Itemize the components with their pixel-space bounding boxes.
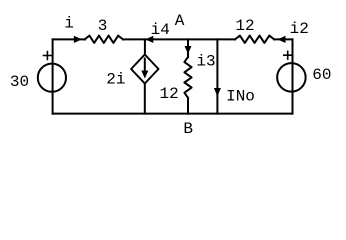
voltage source V1 30V circle (38, 64, 66, 92)
current arrow i (right-pointing on top wire) (74, 36, 82, 43)
current arrow i3 (down-pointing on middle branch) (185, 46, 192, 54)
dependent source arrowhead (141, 71, 148, 79)
dependent current source 2i diamond (131, 55, 158, 84)
voltage source V2 60V circle (277, 63, 306, 92)
svg-text:i2: i2 (290, 20, 309, 38)
wire bottom (53, 113, 293, 115)
wire dependent-source branch upper (144, 39, 146, 54)
current arrow i4 (left-pointing on top wire) (145, 36, 153, 43)
svg-text:i: i (64, 15, 74, 33)
wire left branch vertical (52, 39, 54, 113)
current arrow INo (down-pointing on INo branch) (214, 88, 221, 97)
svg-text:B: B (183, 120, 193, 138)
svg-text:A: A (175, 12, 185, 30)
svg-text:i4: i4 (151, 21, 170, 39)
svg-text:30: 30 (10, 73, 29, 91)
plus sign of V2 (284, 51, 292, 59)
dependent source internal arrow shaft (144, 59, 146, 72)
svg-text:2i: 2i (106, 71, 125, 89)
resistor R3 value 12 (middle vertical) (184, 57, 191, 98)
wire right branch vertical (292, 39, 294, 113)
wire top-left segment (53, 38, 85, 40)
svg-text:60: 60 (312, 66, 331, 84)
plus sign of V1 (44, 52, 52, 60)
svg-text:3: 3 (98, 17, 108, 35)
svg-text:12: 12 (160, 85, 179, 103)
wire top-right segment (274, 38, 292, 40)
svg-text:i3: i3 (196, 53, 215, 71)
current arrow i2 (left-pointing on top wire) (278, 36, 286, 43)
wire INo branch vertical (216, 39, 218, 113)
svg-text:INo: INo (226, 87, 255, 105)
svg-text:12: 12 (235, 17, 254, 35)
wire dependent-source branch lower (144, 84, 146, 114)
resistor R1 value 3 (top left) (85, 36, 123, 43)
wire middle resistor branch lower (187, 98, 189, 114)
resistor R2 value 12 (top right) (235, 36, 274, 43)
wire top-middle segment (123, 38, 235, 40)
wire middle resistor branch upper (187, 39, 189, 57)
